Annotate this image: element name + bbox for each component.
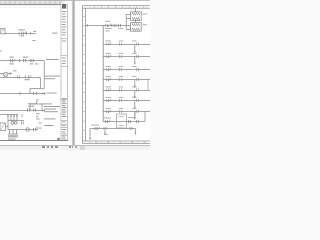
terminal X2 bbox=[19, 59, 21, 62]
top hairline bbox=[0, 0, 150, 1]
coil K22 bbox=[136, 55, 138, 58]
device box A1 bbox=[0, 123, 8, 130]
contactor K11 bbox=[131, 23, 142, 32]
device box Z1 bbox=[0, 29, 5, 34]
rung 4 wire bbox=[103, 79, 150, 81]
labels wire L1 bbox=[105, 21, 123, 32]
rung 6 wire bbox=[103, 100, 150, 102]
contact S2 bbox=[17, 75, 19, 78]
switch S3 bbox=[26, 75, 32, 78]
wire drop arrow D8 bbox=[104, 130, 106, 135]
device box U1 bbox=[117, 114, 127, 128]
coil K26 bbox=[136, 99, 138, 102]
terminal pair X37 bbox=[119, 110, 121, 113]
contact S27 bbox=[106, 110, 111, 113]
wire W5 bbox=[0, 110, 45, 112]
coil K24 bbox=[136, 78, 138, 81]
contact S7 bbox=[33, 126, 37, 131]
motor M1 bbox=[26, 128, 29, 131]
wire W4 bbox=[0, 93, 45, 95]
title block column (parts list) bbox=[61, 4, 67, 141]
labels rung 1 bbox=[105, 40, 136, 41]
wire drop arrow D2 bbox=[134, 57, 136, 66]
push button S5 bbox=[14, 121, 17, 124]
destination arrow W5 bbox=[42, 110, 45, 112]
terminal pair X34 bbox=[119, 78, 121, 81]
terminal X20 bbox=[86, 24, 88, 27]
contact K1 bbox=[24, 59, 26, 62]
wire drop arrow D4 bbox=[134, 91, 136, 99]
rung 8 wire bbox=[103, 121, 145, 123]
labels rung 4 bbox=[105, 76, 136, 77]
wire W7 bbox=[8, 121, 38, 130]
terminal pair X6 bbox=[27, 108, 29, 111]
shield loop over W5 bbox=[30, 100, 42, 111]
switch S1 bbox=[23, 31, 26, 34]
terminal strip X10 bbox=[7, 115, 24, 121]
wire drop arrow D9 bbox=[135, 129, 137, 136]
bottom band number specks bbox=[95, 142, 146, 143]
contact S26 bbox=[106, 99, 111, 102]
contact S21 bbox=[106, 42, 111, 45]
terminal pair X7 bbox=[33, 108, 35, 111]
right schematic sheet (page 2) bbox=[80, 0, 150, 146]
terminal pair X39 bbox=[104, 127, 106, 130]
wire drop arrow D5 bbox=[134, 101, 136, 110]
contact S23 bbox=[106, 68, 111, 71]
labels rung 7 bbox=[105, 108, 136, 109]
ground PE bbox=[8, 130, 18, 136]
terminal X4 bbox=[19, 92, 21, 95]
supply rail bus bbox=[102, 26, 104, 122]
wire W6 bbox=[0, 114, 18, 116]
breaker F2 bbox=[10, 59, 15, 62]
wire W2 bbox=[0, 61, 44, 89]
labels bottom cluster bbox=[8, 113, 56, 139]
wire L1 (top feeder) bbox=[85, 25, 126, 27]
push button S4 bbox=[11, 121, 14, 124]
switch S10 bbox=[106, 24, 112, 27]
plug connector X3 bbox=[30, 59, 34, 62]
title block text rows bbox=[62, 11, 66, 140]
wire v1 bbox=[144, 112, 146, 122]
switch S28 bbox=[106, 120, 111, 123]
terminal pair X31 bbox=[119, 43, 121, 46]
coil K27 bbox=[136, 110, 138, 113]
rung 5 wire bbox=[103, 90, 150, 92]
labels rung 5 bbox=[105, 86, 136, 87]
wire v2 bbox=[134, 112, 136, 117]
contact S24 bbox=[106, 78, 111, 81]
wire drop arrow D3 bbox=[134, 80, 136, 89]
terminal pair X36 bbox=[119, 99, 121, 102]
terminal pair X32 bbox=[119, 55, 121, 58]
title block header mark bbox=[62, 4, 66, 9]
wire W3 jog to W4 bbox=[30, 78, 44, 94]
label F1/S1 text bbox=[19, 29, 58, 36]
contact S25 bbox=[106, 88, 111, 91]
terminal pair X38 bbox=[129, 120, 131, 123]
destination arrow W3 bbox=[39, 77, 41, 79]
coil K21 bbox=[136, 43, 138, 46]
rung 7 wire bbox=[103, 111, 150, 113]
page seam shadow bbox=[68, 0, 79, 145]
labels rung 6 bbox=[105, 97, 136, 98]
wire drop arrow D1 bbox=[134, 45, 136, 54]
contact S22 bbox=[106, 55, 111, 58]
labels bottom cluster bbox=[91, 117, 136, 135]
wire W1 bbox=[5, 33, 36, 35]
terminal pair X5 bbox=[34, 92, 37, 95]
wire loop right bbox=[147, 80, 149, 91]
left schematic sheet (page 1) bbox=[0, 0, 68, 145]
labels wire W2 bbox=[9, 40, 58, 64]
indicator lamp P1 bbox=[0, 72, 12, 77]
separator above status bar bbox=[0, 145, 150, 146]
coil K28 bbox=[137, 120, 139, 123]
switch S29 bbox=[95, 127, 100, 130]
labels rung 3 bbox=[105, 66, 136, 67]
wire drop arrow D6 bbox=[134, 112, 136, 121]
terminal pair X40 bbox=[130, 127, 132, 130]
labels wire W3 bbox=[13, 70, 60, 93]
coil K23 bbox=[136, 68, 138, 71]
wire to contactors bbox=[126, 8, 135, 29]
labels contactors bbox=[143, 13, 148, 25]
rung 1 wire bbox=[103, 44, 150, 46]
wire W3 bbox=[0, 77, 39, 79]
terminal X11 bbox=[21, 114, 23, 117]
status bar bbox=[0, 146, 150, 151]
terminal pair X22 bbox=[119, 24, 121, 27]
fuse F1 bbox=[19, 32, 22, 35]
contact S6 bbox=[21, 121, 23, 124]
labels rung 2 bbox=[105, 53, 136, 54]
destination arrow W4 bbox=[42, 92, 45, 95]
terminal pair X33 bbox=[119, 68, 121, 71]
rung 9 wire bbox=[90, 128, 136, 130]
rung 2 wire bbox=[103, 56, 150, 58]
terminal pair X21 bbox=[114, 24, 116, 27]
terminal X1 bbox=[30, 32, 32, 35]
coil K25 bbox=[136, 89, 138, 92]
wire drop arrow D7 bbox=[89, 129, 91, 141]
node tick on left margin bbox=[0, 51, 2, 52]
contactor K10 bbox=[131, 12, 142, 21]
labels wire W5 bbox=[28, 103, 60, 112]
rung 3 wire bbox=[103, 69, 150, 71]
terminal pair X35 bbox=[119, 89, 121, 92]
